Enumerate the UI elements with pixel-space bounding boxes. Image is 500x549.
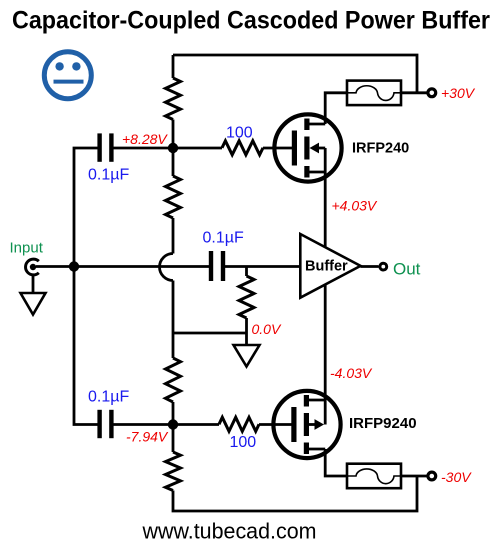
svg-text:100: 100 (230, 434, 257, 451)
wire Q1 drain to fuse (325, 93, 347, 124)
fuse F1 (347, 81, 401, 106)
resistor R2 (166, 176, 181, 218)
svg-text:+8.28V: +8.28V (122, 131, 168, 147)
wire fuse to -30V terminal (401, 475, 427, 478)
svg-text:0.1µF: 0.1µF (88, 167, 129, 184)
wire ground-leg resistor tap (245, 267, 248, 277)
svg-text:Buffer: Buffer (305, 259, 348, 275)
svg-text:-7.94V: -7.94V (126, 429, 169, 445)
svg-text:-4.03V: -4.03V (330, 365, 373, 381)
svg-text:www.tubecad.com: www.tubecad.com (142, 519, 317, 544)
node junction +8.28V (168, 143, 178, 153)
svg-text:0.1µF: 0.1µF (88, 389, 129, 406)
wire hop to tap line (172, 281, 175, 359)
wire tap line to ground resistor (173, 332, 247, 335)
smiley face icon (44, 52, 91, 99)
wire node to R4 (172, 425, 175, 453)
resistor R6 (buffer input to ground) (239, 276, 254, 318)
svg-text:-30V: -30V (441, 469, 472, 485)
wire bottom rail (173, 476, 417, 511)
capacitor C1 0.1uF (top left) (97, 133, 113, 161)
svg-text:Input: Input (10, 240, 44, 257)
capacitor C3 0.1uF (bottom left) (97, 410, 113, 438)
resistor R3 (166, 358, 181, 402)
wire C2 to buffer input (225, 265, 301, 268)
terminal -30V (428, 472, 436, 480)
op-amp U1 Buffer (300, 234, 360, 298)
svg-text:100: 100 (226, 124, 253, 141)
wire node to R5 (173, 147, 222, 150)
wire top rail (173, 55, 417, 93)
ground (input) (21, 293, 46, 315)
wire R6 to ground (245, 318, 248, 345)
terminal Out (380, 263, 387, 270)
svg-text:0.1µF: 0.1µF (203, 230, 244, 247)
wire input signal line (36, 265, 209, 268)
fuse F2 (347, 464, 401, 489)
wire node to R7 (173, 423, 219, 426)
svg-text:0.0V: 0.0V (252, 321, 282, 337)
wire hop-over arc crossing signal line (160, 254, 174, 281)
svg-text:+4.03V: +4.03V (332, 198, 378, 214)
capacitor C2 0.1uF (middle) (209, 251, 225, 281)
wire R1 to node +8.28V (172, 120, 175, 149)
wire buffer to Out (361, 265, 379, 268)
wire R2 down to hop-over (172, 218, 175, 254)
wire R3 to node -7.94V (172, 402, 175, 425)
wire R7 to Q2 gate (259, 423, 292, 426)
resistor R1 (top of ladder) (166, 78, 181, 120)
resistor R4 (bottom of ladder) (166, 452, 181, 491)
svg-text:IRFP9240: IRFP9240 (349, 415, 417, 432)
wire left rail segment above R1 (172, 55, 175, 78)
node junction -7.94V (168, 419, 178, 429)
wire left coupling rail (74, 148, 98, 425)
svg-text:IRFP240: IRFP240 (352, 141, 409, 157)
transistor Q1 IRFP240 (274, 114, 341, 181)
ground (0.0V) (234, 345, 260, 367)
svg-text:Capacitor-Coupled Cascoded Pow: Capacitor-Coupled Cascoded Power Buffer (12, 6, 490, 34)
wire Q2 drain to fuse (325, 449, 347, 476)
wire fuse to +30V terminal (401, 91, 427, 94)
svg-text:+30V: +30V (441, 85, 476, 101)
wire jack to ground (32, 275, 35, 292)
wire R5 to Q1 gate (263, 147, 292, 150)
wire source rail Q1 to Q2 (passes behind buffer) (324, 148, 327, 425)
node junction input (69, 261, 79, 271)
resistor R7 100 (bottom gate stopper) (219, 417, 259, 431)
terminal +30V (428, 89, 436, 97)
resistor R5 100 (top gate stopper) (222, 141, 263, 155)
wire node to R2 (172, 148, 175, 176)
transistor Q2 IRFP9240 (273, 391, 340, 458)
wire C3 to node -7.94V (114, 423, 174, 426)
input jack J1 (26, 259, 39, 275)
wire C1 to node +8.28V (114, 147, 174, 150)
svg-text:Out: Out (393, 260, 421, 279)
